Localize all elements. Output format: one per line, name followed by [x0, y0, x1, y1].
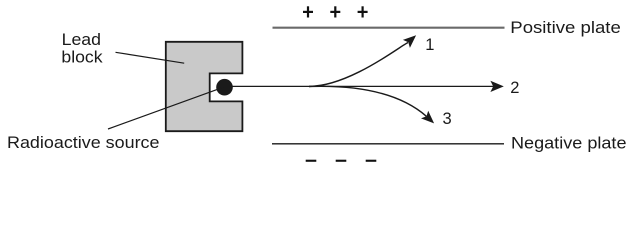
label: Positive plate: [510, 19, 621, 37]
label: 2: [510, 79, 519, 97]
radioactive source dot: [216, 79, 233, 96]
label: 3: [443, 110, 452, 128]
lead block: [166, 42, 243, 131]
minus sign 2: [336, 160, 347, 162]
svg-text:Negative plate: Negative plate: [511, 135, 627, 153]
leader line from Radioactive source label to dot: [108, 87, 224, 129]
label: Radioactive source: [7, 134, 160, 152]
ray 2 arrowhead: [490, 81, 503, 92]
minus sign 3: [366, 160, 377, 162]
negative plate line: [272, 143, 504, 145]
svg-text:3: 3: [443, 110, 452, 128]
svg-text:2: 2: [510, 79, 519, 97]
leader line from Lead block label to block: [116, 52, 185, 63]
svg-text:Radioactive source: Radioactive source: [7, 134, 160, 152]
svg-text:block: block: [61, 48, 103, 66]
ray 2 straight line (gamma): [231, 85, 494, 87]
ray 3 arrowhead: [421, 111, 434, 124]
ray 3 curve (deflected down, alpha): [309, 86, 426, 116]
plus sign 1: [303, 6, 313, 17]
ray 1 arrowhead: [403, 35, 416, 48]
plus sign 2: [330, 6, 340, 17]
positive plate line: [273, 27, 505, 29]
label: Negative plate: [511, 135, 627, 153]
svg-text:Lead: Lead: [62, 31, 101, 49]
minus sign 1: [306, 160, 317, 162]
label: 1: [425, 36, 434, 54]
svg-text:Positive plate: Positive plate: [510, 19, 621, 37]
ray 1 curve (deflected up, beta): [309, 43, 408, 87]
svg-text:1: 1: [425, 36, 434, 54]
label: Lead block: [61, 31, 103, 66]
plus sign 3: [358, 6, 368, 17]
